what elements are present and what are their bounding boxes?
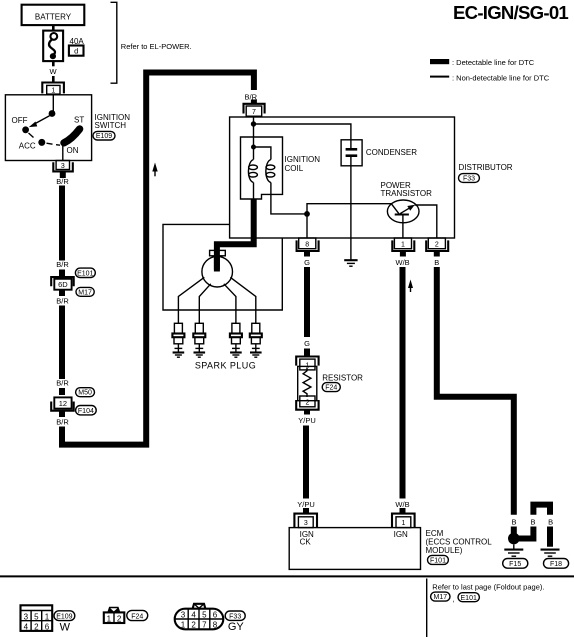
rotor contact — [214, 256, 220, 272]
condenser C — [341, 140, 362, 166]
svg-text:Y/PU: Y/PU — [297, 500, 315, 509]
svg-text:M50: M50 — [78, 390, 92, 397]
wire stub — [59, 388, 65, 395]
svg-text:B: B — [548, 518, 553, 527]
wire bridge to F18 ground — [514, 505, 550, 547]
svg-text:B: B — [511, 518, 516, 527]
svg-text:3: 3 — [24, 613, 29, 622]
label IGNITION COIL — [285, 155, 321, 173]
svg-text:B: B — [530, 518, 535, 527]
wire battery to fuse — [52, 25, 55, 31]
svg-text:2: 2 — [34, 623, 39, 632]
svg-text:1: 1 — [51, 88, 55, 95]
connector E109 pinout — [21, 605, 53, 631]
svg-text:1: 1 — [45, 613, 50, 622]
connector ref F33 — [459, 174, 480, 183]
svg-text:F33: F33 — [463, 176, 475, 183]
wire — [511, 527, 517, 539]
rotor cap — [210, 250, 226, 255]
wire W/B down to ECM — [400, 267, 406, 499]
wire B/R corner path to connector 7 — [62, 73, 254, 445]
label IGNITION SWITCH — [95, 113, 131, 130]
svg-text:8: 8 — [305, 242, 309, 249]
ECM connector 1 — [392, 508, 415, 528]
svg-text:F101: F101 — [430, 558, 446, 565]
connector 1 (ignition switch) — [42, 83, 64, 95]
svg-text:EC-IGN/SG-01: EC-IGN/SG-01 — [453, 2, 568, 23]
spark plug 1 — [172, 323, 184, 357]
connector ref M17 — [431, 592, 450, 601]
battery — [22, 5, 85, 25]
connector ref E109 — [93, 131, 115, 140]
ECM connector 3 — [294, 508, 317, 528]
svg-text:3: 3 — [304, 520, 308, 527]
svg-text:M17: M17 — [78, 289, 92, 296]
svg-text:7: 7 — [252, 109, 256, 116]
connector ref F101 — [428, 555, 449, 564]
svg-text:6D: 6D — [58, 280, 68, 289]
svg-text:2: 2 — [305, 400, 309, 407]
svg-text:CK: CK — [300, 538, 312, 547]
svg-text:RESISTOR: RESISTOR — [322, 374, 363, 383]
connector ref F15 — [503, 559, 528, 569]
svg-text:SWITCH: SWITCH — [95, 121, 127, 130]
svg-text:5: 5 — [202, 610, 207, 619]
distributor rotor — [202, 256, 233, 287]
refer to EL-POWER bracket — [111, 2, 192, 83]
wire transistor collector to pin 1 — [402, 216, 404, 239]
wire junction to pin 8 — [306, 214, 308, 238]
svg-text:B: B — [434, 258, 439, 267]
svg-text:TRANSISTOR: TRANSISTOR — [381, 189, 433, 198]
direction arrow up — [152, 163, 157, 172]
svg-text:G: G — [304, 339, 310, 348]
svg-text:F104: F104 — [78, 408, 94, 415]
connector ref F18 — [544, 559, 569, 569]
svg-text:F18: F18 — [550, 561, 562, 568]
pin 8 (distributor) — [297, 238, 319, 257]
svg-text:BATTERY: BATTERY — [35, 12, 72, 21]
svg-text:Y/PU: Y/PU — [298, 416, 316, 425]
svg-text:d: d — [74, 47, 78, 56]
svg-text:W: W — [49, 67, 57, 76]
wire to spark plug 2 — [199, 284, 211, 324]
wire B from pin 2 to ground — [437, 267, 514, 515]
svg-text:E109: E109 — [56, 613, 72, 620]
connector 7 (distributor) — [244, 100, 265, 117]
connector ref M17 — [76, 287, 94, 296]
svg-text:CONDENSER: CONDENSER — [366, 148, 417, 157]
svg-text:2: 2 — [117, 614, 122, 623]
svg-text:OFF: OFF — [12, 116, 28, 125]
node junction base/pin8 — [304, 211, 310, 217]
svg-text:F24: F24 — [131, 613, 143, 620]
svg-text:F15: F15 — [509, 561, 521, 568]
direction arrow up — [408, 280, 413, 289]
svg-text:B/R: B/R — [56, 177, 69, 186]
svg-text:3: 3 — [61, 163, 65, 170]
svg-text:8: 8 — [213, 621, 218, 630]
wire stub — [59, 270, 65, 277]
svg-text:6: 6 — [213, 610, 218, 619]
svg-text:2: 2 — [435, 242, 439, 249]
svg-text:: Detectable line for DTC: : Detectable line for DTC — [452, 58, 535, 67]
connector ref E109 — [54, 611, 75, 621]
wire to condenser — [254, 124, 351, 140]
wire transistor emitter to pin 2 — [415, 205, 437, 238]
svg-text:ON: ON — [67, 146, 79, 155]
ignition switch — [5, 94, 91, 160]
wire B/R down (segment 2) — [59, 306, 65, 380]
wire coil to transistor base — [271, 194, 307, 214]
distributor box — [230, 117, 455, 238]
pin 2 (distributor) — [426, 238, 448, 257]
svg-text:3: 3 — [181, 610, 186, 619]
wire to spark plug 3 — [224, 284, 236, 324]
spark plug 3 — [230, 323, 242, 357]
selector arc — [64, 129, 80, 143]
connector F24 pinout — [104, 607, 125, 623]
svg-text:W: W — [60, 622, 71, 634]
separator line — [0, 575, 574, 577]
wire stub — [304, 349, 310, 356]
pin 1 (distributor) — [392, 238, 414, 257]
label POWER TRANSISTOR — [381, 181, 433, 198]
svg-text:Refer to last page (Foldout pa: Refer to last page (Foldout page). — [432, 583, 544, 592]
svg-text:5: 5 — [34, 613, 39, 622]
svg-text:B/R: B/R — [56, 297, 69, 306]
svg-text:IGN: IGN — [394, 530, 408, 539]
connector F33 pinout — [175, 604, 224, 630]
svg-text:SPARK PLUG: SPARK PLUG — [195, 360, 256, 370]
footnote divider — [426, 579, 428, 637]
node junction in coil — [251, 145, 256, 150]
svg-text:MODULE): MODULE) — [426, 546, 463, 555]
svg-text:COIL: COIL — [285, 164, 304, 173]
connector ref F24 — [322, 383, 340, 392]
resistor connector 1 — [296, 357, 318, 370]
ECM box — [289, 528, 420, 570]
svg-text:4: 4 — [24, 623, 29, 632]
wire condenser to ground — [350, 166, 352, 260]
svg-text:B/R: B/R — [56, 418, 69, 427]
connector ref M50 — [76, 388, 95, 397]
connector ref E101 — [75, 268, 95, 277]
wire Y/PU down to ECM — [303, 426, 309, 499]
wire — [52, 76, 55, 83]
spark plug enclosure — [163, 224, 282, 310]
node junction at coil supply — [251, 121, 256, 126]
svg-text:W/B: W/B — [395, 500, 409, 509]
wire to spark plug 1 — [178, 277, 204, 323]
legend detectable line — [430, 58, 535, 67]
connector 6D — [51, 277, 73, 296]
node ground junction F15 — [508, 533, 520, 545]
wire to spark plug 4 — [230, 277, 256, 323]
connector ref F24 — [127, 610, 148, 620]
svg-text:1: 1 — [107, 614, 112, 623]
connector 3 (ignition switch) — [53, 161, 73, 179]
ground (condenser) — [344, 260, 357, 266]
ground F15 — [504, 544, 523, 556]
svg-text:1: 1 — [401, 242, 405, 249]
svg-text:: Non-detectable line for DTC: : Non-detectable line for DTC — [452, 74, 550, 83]
svg-text:F33: F33 — [229, 613, 241, 620]
svg-text:12: 12 — [59, 399, 67, 408]
wire B/R down (segment 1) — [59, 186, 65, 261]
resistor connector 2 — [296, 396, 318, 415]
svg-text:B/R: B/R — [56, 379, 69, 388]
svg-text:W/B: W/B — [396, 258, 410, 267]
svg-text:6: 6 — [45, 623, 50, 632]
legend non-detectable line — [430, 74, 550, 83]
label ECM (ECCS CONTROL MODULE) — [426, 529, 493, 555]
wire junction up to transistor — [307, 204, 392, 214]
svg-text:ACC: ACC — [19, 142, 36, 151]
svg-text:1: 1 — [401, 520, 405, 527]
spark plug 4 — [250, 323, 262, 357]
power transistor — [387, 200, 419, 223]
svg-text:G: G — [304, 258, 310, 267]
svg-text:DISTRIBUTOR: DISTRIBUTOR — [459, 163, 513, 172]
svg-text:E101: E101 — [77, 270, 93, 277]
wire G down to resistor — [304, 267, 310, 337]
ground F18 — [541, 550, 560, 557]
svg-text:2: 2 — [191, 621, 196, 630]
svg-text:4: 4 — [191, 610, 196, 619]
svg-text:M17: M17 — [433, 594, 447, 601]
ignition coil box — [241, 137, 283, 199]
svg-text:Refer to EL-POWER.: Refer to EL-POWER. — [121, 42, 192, 51]
connector ref F33 — [225, 611, 245, 620]
svg-text:,: , — [453, 595, 455, 604]
fuse 40A — [43, 31, 63, 61]
svg-text:B/R: B/R — [56, 260, 69, 269]
svg-text:1: 1 — [181, 621, 186, 630]
fuse box d — [69, 46, 84, 56]
spark plug 2 — [193, 323, 205, 357]
wire into box from connector 7 — [253, 116, 255, 124]
connector ref E101 — [458, 593, 479, 602]
connector ref F104 — [76, 406, 97, 415]
svg-text:GY: GY — [228, 621, 245, 633]
svg-text:E109: E109 — [96, 133, 112, 140]
svg-text:7: 7 — [202, 621, 207, 630]
wire fuse to connector 1 — [52, 61, 55, 66]
svg-text:F24: F24 — [325, 385, 337, 392]
connector 12 — [51, 397, 73, 417]
resistor R — [298, 366, 317, 400]
high tension wire coil to rotor — [217, 199, 254, 270]
svg-text:E101: E101 — [461, 595, 477, 602]
ignition coil windings — [248, 124, 274, 199]
svg-text:ST: ST — [74, 116, 84, 125]
svg-text:IGNITION: IGNITION — [285, 155, 321, 164]
